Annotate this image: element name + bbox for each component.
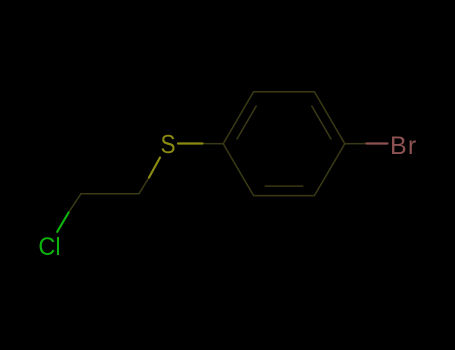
- svg-text:Br: Br: [390, 132, 417, 160]
- svg-text:S: S: [160, 131, 175, 160]
- svg-text:Cl: Cl: [38, 233, 60, 261]
